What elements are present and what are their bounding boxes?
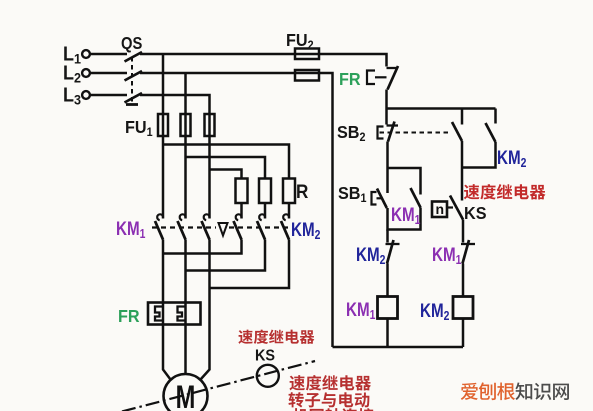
- wire L3 feeder: [140, 95, 210, 219]
- pushbutton SB2 NO contact: [461, 109, 464, 125]
- wire KM2 coil to rail: [462, 319, 465, 348]
- fuse FU1 label: [125, 117, 153, 139]
- caption clipped third line: [292, 408, 373, 411]
- switch QS mechanical link dashed: [131, 57, 133, 102]
- terminal L3: [82, 91, 90, 99]
- fuse FU1 phase 209.5: [205, 114, 215, 136]
- wire to KM1 coil: [386, 264, 389, 297]
- fuse FU1 phase 163: [158, 114, 168, 136]
- pushbutton SB2 NC: [387, 124, 399, 126]
- wire FR to node: [385, 90, 388, 125]
- label FR heater: [118, 306, 140, 326]
- wire to KS contact: [461, 168, 464, 201]
- wire L2 feeder to FU2b and left control rail: [140, 73, 333, 347]
- wire phase A down: [162, 54, 165, 219]
- wire phase B down: [184, 73, 187, 219]
- shaft dash-dot line motor to KS: [122, 361, 315, 411]
- wire tap B to R middle: [186, 157, 266, 179]
- fuse FU2 label: [286, 30, 314, 52]
- fuse FU1 phase 185.5: [181, 114, 191, 136]
- svg-text:KS: KS: [255, 347, 275, 365]
- wire KM2 c4 to U: [163, 240, 242, 254]
- fuse FU2 (L1): [295, 49, 319, 60]
- label KM2 coil: [420, 299, 450, 323]
- svg-text:KS: KS: [464, 203, 486, 223]
- svg-text:FR: FR: [339, 69, 361, 89]
- wire parallel frame bottom: [388, 208, 421, 230]
- caption speed-relay (red) bottom: [289, 375, 371, 390]
- wire node to right contacts: [387, 107, 496, 110]
- motor M circle: [164, 374, 208, 411]
- wire R(289) to KM2 contact: [288, 203, 291, 219]
- label KM2 aux contact: [497, 146, 527, 170]
- contactor main contact KM1-2: [180, 214, 186, 220]
- wire to KM2 coil: [462, 264, 465, 297]
- wire motor lead W: [201, 240, 210, 380]
- switch QS label: [121, 34, 142, 54]
- label KM2 NC contact: [356, 243, 386, 267]
- label speed-relay (red) near KS circle: [238, 329, 314, 343]
- resistor R label: [296, 181, 308, 202]
- caption rotor-and-motor (red) bottom: [288, 392, 369, 407]
- svg-text:R: R: [296, 181, 308, 202]
- wire SB2 down to node B: [386, 142, 389, 169]
- label SB2: [337, 122, 366, 144]
- wire down to KM2 NC: [386, 230, 389, 243]
- watermark zhishiwang (gray): [515, 382, 569, 400]
- contactor main contact KM2-1: [236, 214, 242, 220]
- svg-text:n: n: [436, 201, 445, 217]
- wire KM2 c5 to V: [186, 240, 266, 271]
- svg-text:QS: QS: [121, 34, 142, 54]
- wire R(241.5) to KM2 contact: [240, 203, 243, 219]
- wire bottom control rail: [333, 346, 464, 349]
- label KM2 main contacts: [291, 218, 321, 242]
- interlock dashed link KM1-KM2: [152, 226, 216, 228]
- wire tap C to R left: [210, 170, 242, 179]
- wire motor lead U: [163, 240, 171, 380]
- wire KS to KM1 NC: [462, 220, 465, 243]
- wire KM2 c6 to W: [210, 240, 290, 289]
- contactor KM1 auxiliary NO contact: [411, 188, 421, 208]
- terminal L1: [82, 50, 90, 58]
- pushbutton SB1 NO: [372, 192, 377, 205]
- label KM1 coil: [346, 298, 376, 322]
- watermark aibaogen (orange): [461, 382, 515, 400]
- svg-text:M: M: [176, 380, 196, 411]
- label speed-relay (red) top right: [464, 184, 546, 199]
- terminal L2: [82, 69, 90, 77]
- wire L3 to QS: [90, 94, 127, 97]
- label KM1 aux contact: [391, 203, 421, 227]
- coil KM2: [453, 297, 473, 319]
- contactor main contact KM1-1: [157, 214, 163, 220]
- wire L1 to QS: [90, 53, 127, 56]
- speed relay KS contact: [450, 196, 463, 220]
- wire tap A to R right: [163, 145, 289, 179]
- speed relay KS circle: [257, 365, 279, 387]
- contactor KM2 NC interlock contact: [386, 243, 400, 245]
- wire L1 feeder to FU2a and control: [140, 54, 387, 67]
- motor M letter: [176, 380, 196, 411]
- label KM1 main contacts: [116, 217, 146, 241]
- FR heater element on 163: [155, 307, 163, 321]
- thermal overload FR heater box: [148, 303, 201, 325]
- FR NC contact (control): [387, 67, 399, 69]
- fuse FU2 (L2): [295, 70, 319, 81]
- label SB1: [338, 183, 367, 205]
- wire parallel frame top: [388, 168, 421, 195]
- label KS contact: [464, 203, 486, 223]
- label FR contact: [339, 69, 361, 89]
- interlock triangle: [219, 223, 228, 236]
- contactor main contact KM1-3: [204, 214, 210, 220]
- contactor main contact KM2-3: [283, 214, 289, 220]
- resistor R bank: [236, 179, 248, 204]
- wire motor lead V: [184, 240, 187, 375]
- wire R(265) to KM2 contact: [264, 203, 267, 219]
- contactor KM2 auxiliary NO contact: [494, 109, 497, 124]
- label KS near circle: [255, 347, 275, 365]
- wire L2 to QS: [90, 72, 127, 75]
- contactor KM1 NC interlock contact: [461, 243, 475, 245]
- wire KM1 coil to rail: [386, 319, 389, 348]
- contactor main contact KM2-2: [259, 214, 265, 220]
- coil KM1: [378, 297, 398, 319]
- svg-text:FR: FR: [118, 306, 140, 326]
- label KM1 NC contact: [432, 243, 462, 267]
- FR heater element on 185.5: [178, 307, 186, 321]
